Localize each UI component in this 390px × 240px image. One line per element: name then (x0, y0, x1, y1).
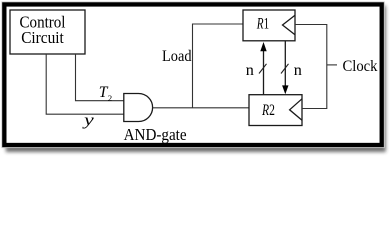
svg-text:y: y (81, 112, 95, 129)
wire T2: control circuit to AND-gate upper input (76, 54, 125, 101)
svg-text:R1: R1 (256, 16, 269, 33)
clock wedge of R1 (283, 15, 296, 35)
svg-text:R2: R2 (261, 102, 275, 119)
svg-text:AND-gate: AND-gate (124, 125, 187, 144)
bus wire: R2 to R1 (upward) (260, 42, 266, 95)
border frame shadow (6, 6, 386, 152)
svg-text:2: 2 (108, 93, 112, 103)
bus slash right (281, 64, 289, 74)
svg-text:Circuit: Circuit (21, 28, 64, 47)
svg-text:Load: Load (162, 48, 192, 65)
label T2 (99, 84, 112, 103)
bus slash left (259, 64, 267, 74)
wire: AND-gate output to R2 input (153, 107, 249, 109)
clock wedge of R2 (290, 99, 302, 120)
svg-text:Clock: Clock (343, 58, 378, 75)
register R1 (243, 10, 295, 41)
border frame halo (2, 2, 384, 147)
control circuit box (10, 10, 85, 54)
border frame (4, 4, 381, 145)
AND-gate (124, 94, 153, 122)
register R2 (249, 95, 302, 126)
wire: load line up to R1 input (193, 24, 244, 108)
svg-text:n: n (294, 61, 302, 79)
clock net wire (295, 25, 337, 109)
svg-text:n: n (246, 61, 254, 79)
wire y: control circuit to AND-gate lower input (46, 54, 124, 114)
bus wire: R1 to R2 (downward) (282, 41, 288, 94)
